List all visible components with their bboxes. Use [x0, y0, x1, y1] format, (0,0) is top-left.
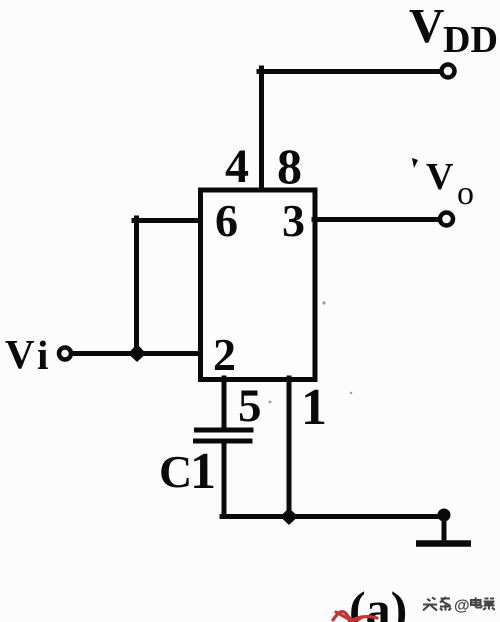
svg-text:V: V	[409, 0, 444, 53]
svg-text:2: 2	[213, 329, 236, 380]
svg-text:(a): (a)	[349, 581, 407, 622]
svg-text:o: o	[457, 175, 474, 212]
svg-text:i: i	[37, 332, 48, 378]
svg-text:6: 6	[215, 195, 238, 246]
svg-text:5: 5	[238, 380, 262, 432]
svg-text:1: 1	[190, 443, 216, 500]
svg-text:V: V	[426, 156, 454, 198]
svg-text:3: 3	[282, 195, 305, 246]
svg-text:8: 8	[277, 138, 302, 194]
svg-text:1: 1	[301, 379, 327, 436]
svg-text:DD: DD	[443, 19, 498, 61]
svg-text:C: C	[159, 446, 192, 497]
svg-text:4: 4	[225, 140, 249, 193]
svg-text:V: V	[5, 331, 35, 377]
svg-text:@: @	[454, 598, 470, 615]
